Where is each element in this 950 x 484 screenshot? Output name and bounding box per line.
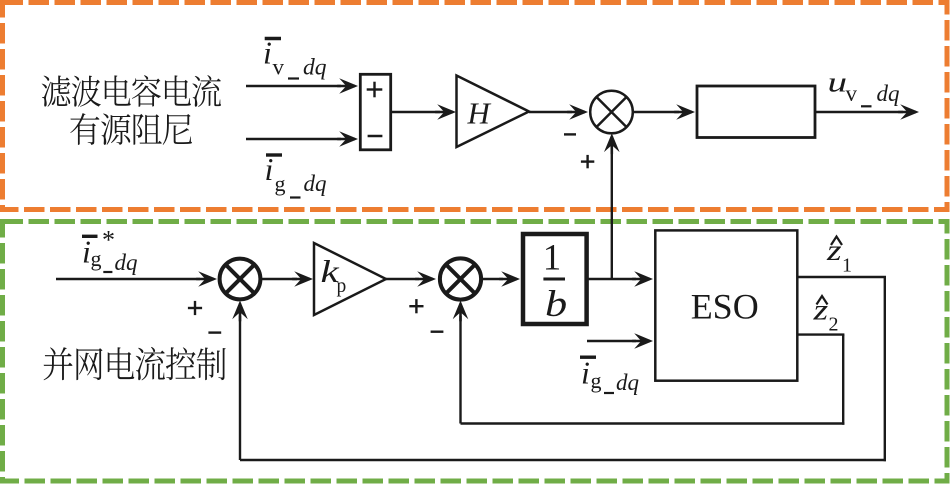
label u_v_dq	[828, 66, 900, 106]
label i_v_dq with overbar	[263, 35, 327, 81]
gain block kp (triangle)	[314, 243, 386, 315]
svg-text:g: g	[591, 368, 602, 393]
minus sign at multiplier	[564, 133, 576, 135]
svg-text:p: p	[337, 276, 347, 297]
wire: junction 1 to gain kp	[262, 278, 297, 280]
wire: junction 2 to 1/b block	[482, 278, 503, 280]
summer block (+/-)	[360, 74, 390, 150]
plus sign at junction 1	[188, 307, 202, 309]
label: grid current control (并网电流控制)	[44, 347, 226, 380]
block 1/b	[523, 234, 587, 324]
svg-text:b: b	[545, 283, 567, 324]
summing junction 2 (circle with X)	[440, 258, 481, 299]
svg-text:u: u	[828, 66, 848, 98]
svg-text:dq: dq	[877, 81, 900, 106]
multiplier junction (circle with X)	[590, 91, 633, 134]
summing junction 1 (circle with X)	[220, 259, 261, 300]
wire: reference input i*_g_dq	[56, 278, 200, 280]
minus sign at junction 1	[208, 331, 221, 333]
minus sign at junction 2	[431, 331, 444, 333]
svg-text:i: i	[581, 355, 590, 391]
label i_g_dq (ESO input) with overbar	[580, 355, 639, 396]
svg-text:dq: dq	[303, 54, 327, 80]
block ESO	[655, 230, 797, 380]
svg-text:i: i	[265, 151, 274, 187]
wire: feedforward from 1/b tee up into top multiplier	[611, 150, 613, 279]
plus sign at junction 2	[409, 305, 423, 307]
label: active damping (有源阻尼)	[70, 113, 192, 145]
plus sign at multiplier	[581, 160, 594, 162]
svg-text:H: H	[467, 96, 492, 131]
grid current control dashed frame (green)	[3, 222, 948, 482]
label z1 hat	[826, 234, 852, 276]
svg-text:1: 1	[842, 255, 852, 277]
wire: H to multiplier	[529, 111, 572, 113]
wire: 1/b to ESO (tee junction feeds top section)	[587, 278, 636, 280]
output block (empty rectangle)	[697, 86, 815, 138]
svg-text:1: 1	[543, 237, 562, 278]
svg-text:g: g	[275, 171, 286, 196]
wire: z2 feedback inner loop to junction 2	[797, 333, 844, 335]
plus sign in summer	[367, 88, 383, 90]
wire: output u_v_dq	[815, 111, 903, 113]
active damping dashed frame (orange)	[3, 3, 948, 210]
label: filter capacitor current (滤波电容电流)	[42, 75, 221, 107]
wire: kp to summing junction 2	[386, 278, 419, 280]
wire: multiplier to output block	[633, 111, 679, 113]
wire: i_v_dq input into summer	[246, 85, 341, 87]
svg-text:dq: dq	[115, 250, 138, 275]
svg-text:g: g	[91, 246, 102, 271]
svg-text:i: i	[263, 35, 272, 71]
svg-text:2: 2	[829, 314, 839, 336]
svg-text:*: *	[102, 226, 115, 255]
wire: i_g_dq input into summer	[246, 138, 341, 140]
label i_g_dq with overbar	[265, 151, 327, 198]
minus sign in summer	[368, 135, 383, 138]
svg-text:ESO: ESO	[691, 287, 759, 327]
gain block H (triangle)	[457, 76, 530, 148]
svg-text:v: v	[273, 54, 285, 79]
wire: z1 feedback outer loop to junction 1	[797, 276, 886, 278]
svg-text:dq: dq	[616, 370, 639, 395]
svg-text:v: v	[846, 81, 858, 106]
label z2 hat	[812, 294, 838, 336]
svg-text:dq: dq	[304, 171, 327, 196]
wire: measured i_g_dq into ESO	[587, 340, 636, 342]
label i*_g_dq with overbar and star	[82, 226, 138, 276]
wire: summer to gain H	[391, 111, 440, 113]
